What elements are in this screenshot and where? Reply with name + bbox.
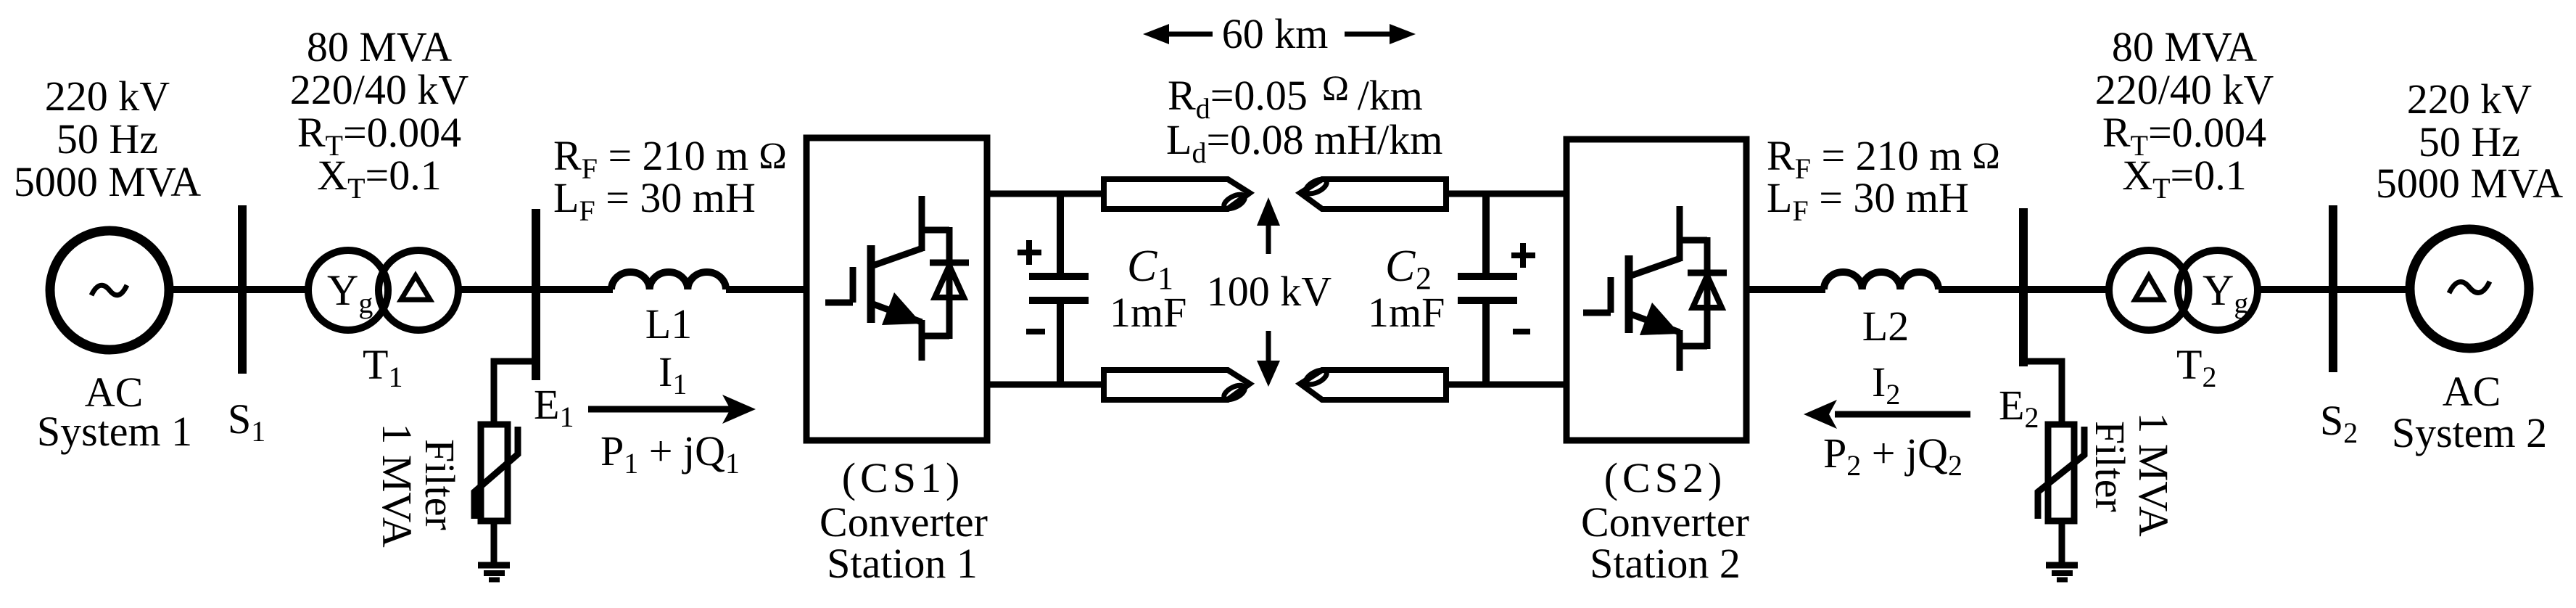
svg-text:Ld=0.08 mH/km: Ld=0.08 mH/km	[1166, 116, 1442, 169]
ground (left filter)	[478, 565, 510, 580]
bus S1	[238, 205, 247, 374]
label: 80 MVA 220/40 kV RT=0.004 XT=0.1 (T1 data)	[290, 23, 469, 205]
wire: L1 to converter CS1	[726, 286, 806, 293]
svg-text:XT=0.1: XT=0.1	[317, 152, 442, 205]
svg-text:P1 + jQ1: P1 + jQ1	[600, 427, 740, 480]
wire: L2 to T2 (through bus E2)	[1939, 286, 2108, 293]
capacitor C1	[1029, 194, 1089, 385]
wire: T1 to L1 (through bus E1)	[458, 286, 613, 293]
svg-text:Station 1: Station 1	[827, 540, 978, 587]
svg-text:5000 MVA: 5000 MVA	[14, 158, 201, 205]
svg-text:Filter: Filter	[2086, 421, 2134, 512]
converter station CS1 box	[806, 138, 987, 440]
svg-text:220 kV: 220 kV	[2407, 75, 2532, 123]
svg-text:S2: S2	[2320, 397, 2358, 449]
delta symbol (T1 secondary winding)	[401, 276, 430, 300]
svg-text:System 2: System 2	[2392, 409, 2547, 456]
label: RF = 210 mOhm LF = 30 mH (L1 data)	[553, 132, 787, 227]
label: 220 kV 50 Hz 5000 MVA (system 1)	[14, 73, 201, 205]
svg-text:E1: E1	[534, 381, 574, 433]
arrow: I2 power flow direction	[1804, 400, 1970, 429]
svg-text:220 kV: 220 kV	[45, 73, 170, 120]
svg-text:System 1: System 1	[37, 408, 192, 455]
svg-text:S1: S1	[228, 395, 265, 448]
transformer T1	[308, 250, 458, 330]
svg-text:E2: E2	[1999, 382, 2039, 434]
label: 100 kV DC voltage with arrows	[1207, 197, 1332, 387]
label: AC System 2	[2392, 368, 2547, 456]
bus E1	[532, 209, 540, 380]
svg-text:L2: L2	[1862, 303, 1909, 350]
AC source G1 (AC System 1)	[50, 231, 169, 350]
bus S2	[2329, 205, 2337, 372]
svg-text:T1: T1	[363, 341, 402, 393]
label: (CS2) Converter Station 2	[1581, 454, 1749, 587]
svg-text:C: C	[1385, 242, 1416, 291]
svg-text:1 MVA: 1 MVA	[2130, 412, 2177, 536]
svg-text:I2: I2	[1872, 358, 1900, 411]
svg-text:100 kV: 100 kV	[1207, 268, 1332, 315]
wire: CS2 to L2	[1746, 286, 1825, 293]
wire: CS1 positive DC output	[987, 191, 1105, 197]
DC line section symbol (positive pole, receiving end)	[1300, 176, 1446, 209]
DC line section symbol (negative pole, sending end)	[1104, 370, 1250, 403]
svg-text:Filter: Filter	[416, 439, 463, 530]
wire: DC line to CS2 negative	[1445, 382, 1566, 388]
DC line section symbol (positive pole, sending end)	[1104, 179, 1250, 212]
wire: DC line to CS2 positive	[1445, 191, 1566, 197]
svg-text:1 MVA: 1 MVA	[373, 423, 421, 547]
label: RF = 210 mOhm LF = 30 mH (L2 data)	[1767, 132, 2000, 227]
svg-text:80 MVA: 80 MVA	[2112, 23, 2257, 70]
ground (right filter)	[2046, 565, 2078, 580]
svg-text:Converter: Converter	[1581, 498, 1749, 546]
svg-text:P2 + jQ2: P2 + jQ2	[1823, 430, 1962, 482]
wire: bus E1 to filter F1	[494, 361, 536, 425]
svg-text:XT=0.1: XT=0.1	[2122, 152, 2247, 205]
svg-text:Yg: Yg	[327, 266, 373, 319]
DC line section symbol (negative pole, receiving end)	[1300, 367, 1446, 400]
filter F1 (varistor symbol)	[474, 424, 518, 521]
svg-text:50 Hz: 50 Hz	[2419, 118, 2520, 165]
wire: filter F1 to ground	[491, 521, 498, 565]
label: AC System 1	[37, 369, 192, 455]
wire: T2 to G2 (through bus S2)	[2258, 286, 2411, 293]
plus polarity mark (C2)	[1511, 243, 1535, 268]
wire: bus E2 to filter F2	[2023, 361, 2062, 425]
svg-text:80 MVA: 80 MVA	[307, 23, 452, 70]
AC source G2 (AC System 2)	[2410, 229, 2529, 348]
IGBT valve U2 (inside CS2, with anti-parallel diode)	[1583, 206, 1727, 371]
svg-text:L1: L1	[645, 300, 692, 348]
minus polarity mark (C2)	[1513, 329, 1530, 334]
label: 220 kV 50 Hz 5000 MVA (system 2)	[2376, 75, 2563, 207]
wire: CS1 negative DC output	[987, 382, 1105, 388]
svg-text:220/40 kV: 220/40 kV	[2095, 66, 2274, 113]
bus E2	[2019, 208, 2028, 366]
svg-text:5000 MVA: 5000 MVA	[2376, 160, 2563, 207]
delta symbol (T2 secondary winding)	[2135, 276, 2163, 300]
svg-text:Station 2: Station 2	[1590, 540, 1741, 587]
svg-text:220/40 kV: 220/40 kV	[290, 66, 469, 113]
filter F2 (varistor symbol)	[2038, 424, 2084, 521]
svg-text:T2: T2	[2176, 341, 2216, 393]
wire: G1 to T1	[169, 286, 310, 293]
IGBT valve U1 (inside CS1, with anti-parallel diode)	[825, 196, 969, 361]
svg-text:1mF: 1mF	[1368, 289, 1445, 336]
svg-text:(CS2): (CS2)	[1604, 454, 1727, 501]
svg-text:1mF: 1mF	[1110, 289, 1186, 336]
svg-text:AC: AC	[2443, 368, 2501, 415]
label: 60 km with arrows	[1143, 10, 1416, 57]
label: 80 MVA 220/40 kV RT=0.004 XT=0.1 (T2 data)	[2095, 23, 2274, 205]
arrow: I1 power flow direction	[588, 395, 756, 424]
minus polarity mark (C1)	[1026, 329, 1045, 334]
transformer T2	[2109, 250, 2258, 330]
inductor L1	[611, 272, 726, 289]
svg-text:Yg: Yg	[2203, 266, 2248, 319]
converter station CS2 box	[1566, 139, 1746, 440]
svg-text:Converter: Converter	[820, 498, 988, 546]
svg-text:C: C	[1127, 242, 1157, 291]
svg-text:50 Hz: 50 Hz	[57, 115, 158, 163]
inductor L2	[1824, 272, 1939, 289]
svg-text:60 km: 60 km	[1222, 10, 1329, 57]
svg-text:I1: I1	[659, 348, 687, 400]
plus polarity mark (C1)	[1017, 240, 1041, 265]
label: (CS1) Converter Station 1	[820, 454, 988, 587]
capacitor C2	[1458, 194, 1517, 385]
svg-text:(CS1): (CS1)	[842, 454, 965, 501]
wire: filter F2 to ground	[2059, 521, 2065, 565]
